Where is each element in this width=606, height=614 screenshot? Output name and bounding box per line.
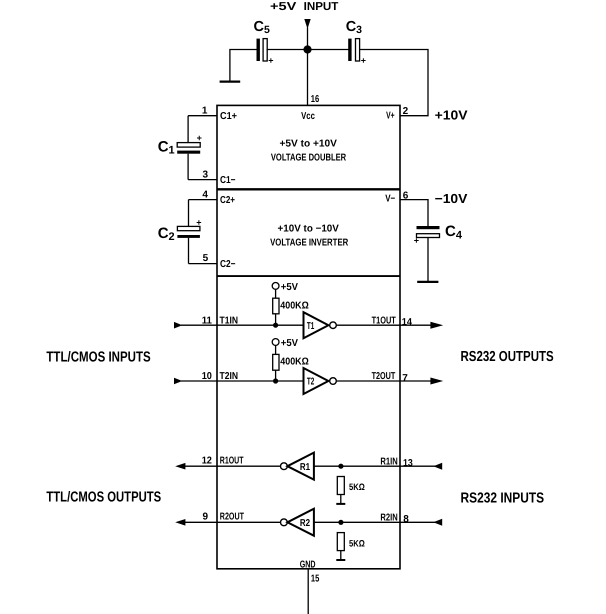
- ground (C4): [417, 281, 438, 283]
- T2OUT output arrow: [430, 378, 443, 385]
- node R2 input junction: [338, 520, 343, 525]
- svg-text:+10V: +10V: [435, 108, 468, 123]
- svg-text:3: 3: [203, 170, 209, 181]
- receiver R2: [281, 509, 314, 536]
- section divider inverter/drivers: [217, 275, 400, 277]
- svg-text:15: 15: [311, 573, 320, 584]
- T1OUT output arrow: [430, 322, 443, 329]
- svg-text:T2OUT: T2OUT: [372, 371, 396, 382]
- capacitor C4: [414, 223, 463, 281]
- R1OUT output arrow: [175, 463, 185, 470]
- +5V terminal (T1 pull-up): [272, 282, 298, 293]
- svg-text:13: 13: [403, 458, 413, 469]
- svg-text:GND: GND: [300, 559, 316, 570]
- svg-text:+5V: +5V: [270, 1, 297, 13]
- wire pin 15 GND: [307, 569, 309, 614]
- svg-text:6: 6: [403, 190, 409, 201]
- svg-text:T1: T1: [307, 321, 315, 332]
- svg-text:2: 2: [403, 106, 409, 117]
- ground (R2 5K): [336, 559, 345, 561]
- wire C3 to V+ pin 2: [360, 50, 428, 116]
- node +5V rail junction: [303, 45, 311, 53]
- svg-text:T1IN: T1IN: [220, 315, 239, 326]
- svg-text:+: +: [268, 55, 273, 65]
- svg-text:+5V: +5V: [281, 338, 299, 349]
- svg-text:4: 4: [202, 190, 208, 201]
- wire pin 3: [188, 179, 217, 181]
- ground (C5): [220, 80, 241, 82]
- R2OUT output arrow: [175, 519, 185, 526]
- resistor 5K (R1): [337, 477, 365, 504]
- svg-text:R2OUT: R2OUT: [220, 511, 244, 522]
- wire T1OUT: [336, 324, 431, 326]
- svg-text:5KΩ: 5KΩ: [349, 538, 365, 548]
- wire R2OUT: [184, 521, 281, 523]
- wire pin16 Vcc (from +5V node to box top): [307, 28, 309, 106]
- node T1 input junction: [273, 323, 278, 328]
- receiver R1: [281, 453, 314, 480]
- wire R1IN: [314, 465, 441, 467]
- wire pin 6 to C4: [400, 200, 428, 226]
- capacitor C3: [346, 19, 366, 65]
- resistor 400K (T2): [273, 345, 309, 381]
- svg-text:+: +: [414, 236, 419, 246]
- svg-text:RS232 OUTPUTS: RS232 OUTPUTS: [461, 349, 554, 365]
- ground (R1 5K): [336, 503, 345, 505]
- +5V input arrow: [304, 19, 310, 29]
- wire C5 to ground: [230, 50, 257, 82]
- svg-text:−10V: −10V: [435, 191, 468, 206]
- svg-text:5: 5: [203, 253, 209, 264]
- svg-text:VOLTAGE INVERTER: VOLTAGE INVERTER: [270, 237, 349, 248]
- wire T2IN: [181, 380, 304, 382]
- svg-text:C2−: C2−: [220, 259, 236, 270]
- T1IN input arrow: [174, 322, 182, 329]
- svg-text:16: 16: [311, 94, 320, 105]
- svg-text:R1OUT: R1OUT: [220, 455, 244, 466]
- R1IN input arrow: [433, 463, 442, 470]
- svg-text:V−: V−: [385, 194, 395, 205]
- svg-text:C1−: C1−: [220, 175, 236, 186]
- driver T1: [304, 312, 337, 338]
- node R1 input junction: [338, 464, 343, 469]
- svg-text:11: 11: [202, 315, 213, 326]
- svg-text:R1IN: R1IN: [380, 456, 397, 467]
- svg-text:400KΩ: 400KΩ: [280, 301, 309, 312]
- label +5V INPUT: [270, 1, 338, 13]
- svg-text:400KΩ: 400KΩ: [280, 357, 309, 368]
- +5V terminal (T2 pull-up): [272, 338, 298, 349]
- svg-text:TTL/CMOS INPUTS: TTL/CMOS INPUTS: [46, 350, 151, 366]
- svg-text:R1: R1: [300, 462, 311, 473]
- svg-text:T1OUT: T1OUT: [372, 315, 396, 326]
- svg-text:+10V to −10V: +10V to −10V: [278, 223, 340, 234]
- svg-text:T2: T2: [307, 377, 315, 388]
- wire pin 1: [188, 115, 217, 117]
- node T2 input junction: [273, 378, 278, 383]
- wire pin 5: [189, 263, 218, 265]
- wire pin 4: [189, 199, 218, 201]
- svg-text:+5V to +10V: +5V to +10V: [280, 138, 338, 149]
- svg-text:10: 10: [202, 371, 213, 382]
- svg-text:+: +: [361, 55, 366, 65]
- svg-text:Vcc: Vcc: [301, 111, 315, 122]
- capacitor C5: [254, 19, 274, 65]
- IC outline: [217, 105, 400, 568]
- wire R1OUT: [184, 465, 281, 467]
- svg-text:12: 12: [202, 455, 213, 466]
- driver T2: [304, 368, 337, 394]
- svg-text:7: 7: [402, 373, 408, 384]
- svg-text:RS232 INPUTS: RS232 INPUTS: [461, 491, 545, 507]
- svg-text:+: +: [196, 217, 201, 227]
- wire T2OUT: [336, 380, 431, 382]
- svg-text:1: 1: [202, 106, 208, 117]
- svg-text:R2IN: R2IN: [380, 512, 397, 523]
- section divider doubler/inverter: [217, 188, 400, 190]
- svg-text:C2+: C2+: [220, 195, 235, 206]
- svg-text:+: +: [197, 133, 202, 143]
- T2IN input arrow: [174, 378, 182, 385]
- resistor 5K (R2): [337, 533, 365, 560]
- resistor 400K (T1): [273, 289, 309, 325]
- svg-text:INPUT: INPUT: [304, 1, 339, 13]
- R2IN input arrow: [433, 519, 442, 526]
- label voltage doubler: [271, 138, 347, 163]
- svg-text:VOLTAGE DOUBLER: VOLTAGE DOUBLER: [271, 152, 347, 163]
- capacitor C2: [158, 200, 202, 264]
- svg-text:14: 14: [402, 317, 413, 328]
- svg-text:+5V: +5V: [281, 282, 299, 293]
- wire T1IN: [181, 324, 304, 326]
- svg-text:TTL/CMOS OUTPUTS: TTL/CMOS OUTPUTS: [46, 490, 161, 506]
- svg-text:5KΩ: 5KΩ: [349, 482, 365, 492]
- svg-text:T2IN: T2IN: [220, 371, 239, 382]
- svg-text:R2: R2: [300, 518, 311, 529]
- svg-text:9: 9: [203, 511, 209, 522]
- svg-text:8: 8: [403, 514, 409, 525]
- wire +5V rail: [267, 49, 349, 51]
- label voltage inverter: [270, 223, 349, 248]
- wire R2IN: [314, 521, 441, 523]
- svg-text:C1+: C1+: [220, 111, 237, 122]
- capacitor C1: [158, 116, 202, 180]
- svg-text:V+: V+: [386, 111, 395, 122]
